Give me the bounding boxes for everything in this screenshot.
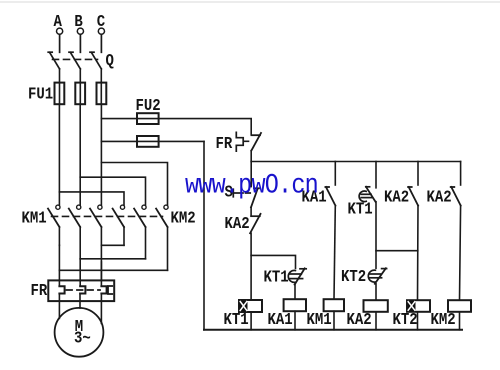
svg-text:Q: Q bbox=[106, 51, 114, 71]
svg-text:KA1: KA1 bbox=[268, 310, 293, 330]
svg-text:FU1: FU1 bbox=[28, 84, 53, 104]
pushbutton S operator bbox=[233, 189, 250, 197]
wire KA1 coil to rail bbox=[294, 311, 296, 330]
fuse FU1 phase C bbox=[97, 83, 107, 105]
coil KT2 bbox=[407, 300, 430, 312]
pushbutton S blade bbox=[251, 188, 259, 207]
wire pole1 down to FR bbox=[58, 245, 60, 286]
switch Q pole B bbox=[69, 35, 80, 69]
thermal contact FR blade bbox=[251, 133, 261, 151]
wire KM2 coil to rail bbox=[459, 312, 461, 330]
svg-text:KM2: KM2 bbox=[431, 310, 456, 330]
wire phase B vertical bbox=[79, 104, 81, 205]
svg-text:www.pwO.cn: www.pwO.cn bbox=[185, 170, 318, 201]
fuse FU2 lower bbox=[137, 136, 159, 147]
coil KA1 bbox=[284, 299, 306, 311]
wire return pole4 to pole3 bbox=[101, 244, 124, 246]
wire KA2#1 to KT2 coil bbox=[417, 206, 420, 301]
wire pole3 down to FR bbox=[100, 262, 102, 286]
wire KT2 coil to rail bbox=[417, 312, 419, 330]
faint scan border top bbox=[0, 1, 500, 3]
wire control left rail bbox=[203, 141, 205, 329]
svg-text:KM2: KM2 bbox=[171, 208, 196, 228]
wire KT1 coil to rail bbox=[250, 312, 252, 330]
svg-text:KT2: KT2 bbox=[341, 267, 366, 287]
FR heater element 1 bbox=[59, 286, 64, 293]
coil KM1 bbox=[324, 299, 344, 311]
dashed linkage KM1-KM2 bbox=[52, 215, 163, 217]
switch Q pole A bbox=[48, 35, 59, 69]
thermal relay FR box bbox=[48, 280, 114, 301]
wire rail to S button bbox=[250, 162, 252, 187]
svg-text:KA2: KA2 bbox=[427, 187, 452, 207]
wire C switch to fuse bbox=[100, 69, 102, 104]
branch KA1: wire from rail bbox=[334, 162, 336, 186]
terminal circle A bbox=[57, 28, 63, 34]
svg-text:KT1: KT1 bbox=[348, 199, 373, 219]
contactor KM2 pole 4 bbox=[113, 205, 125, 245]
wire phase A vertical bbox=[58, 104, 60, 205]
contact KT2 delayed open bbox=[368, 268, 386, 284]
contact KT1 delayed close (cup) bbox=[288, 268, 306, 284]
contact KA2 #2 bbox=[451, 187, 461, 206]
wire pole2 down to FR bbox=[79, 259, 81, 286]
branch KA2#2: wire from rail bbox=[460, 162, 462, 186]
FR heater element 3 bbox=[101, 286, 106, 293]
contact KA2 #1 bbox=[408, 187, 418, 206]
wire branch1 to KT1 coil bbox=[250, 233, 252, 300]
wire control feed lower bbox=[101, 140, 204, 142]
switch Q pole C bbox=[90, 35, 101, 69]
control top rail bbox=[251, 161, 460, 163]
svg-text:KA2: KA2 bbox=[225, 214, 250, 234]
wire return pole6 to pole1 bbox=[59, 269, 167, 271]
thermal contact FR operator bbox=[236, 132, 243, 151]
wire KA1 contact to KM1 coil bbox=[334, 206, 335, 300]
FR heater element 2 bbox=[80, 286, 85, 293]
wire control feed upper bbox=[101, 119, 251, 135]
control bottom rail bbox=[204, 329, 462, 331]
wire KT1 contact to junction2 bbox=[375, 202, 377, 269]
terminal circle B bbox=[77, 28, 83, 34]
svg-text:KT2: KT2 bbox=[393, 310, 418, 330]
svg-text:KM1: KM1 bbox=[307, 310, 332, 330]
contactor KM1 pole 1 bbox=[48, 205, 60, 245]
FR linkage dashes bbox=[67, 289, 101, 291]
wire KA2 coil to rail bbox=[375, 312, 377, 330]
terminal circle C bbox=[98, 28, 104, 34]
junction2 wire bbox=[376, 250, 418, 252]
wire FR to motor C bbox=[100, 294, 102, 324]
wire B switch to fuse bbox=[79, 69, 81, 104]
contactor KM2 pole 6 bbox=[156, 205, 168, 270]
thermal contact FR dashes bbox=[245, 140, 252, 142]
wire KT1 contact to KA1 coil bbox=[294, 285, 296, 300]
wire KA2#2 to KM2 coil bbox=[460, 206, 461, 301]
branch KT1: wire from rail bbox=[375, 162, 377, 188]
svg-text:FR: FR bbox=[216, 134, 233, 154]
wire junction to KT1 contact bbox=[251, 255, 295, 268]
wire crossover A to KM2 pole4 bbox=[59, 192, 124, 205]
fuse FU2 upper bbox=[137, 113, 159, 124]
wire return pole5 to pole2 bbox=[80, 258, 145, 260]
contactor KM1 pole 3 bbox=[90, 205, 102, 280]
branch KA2#1: wire from rail bbox=[417, 162, 419, 186]
coil KT1 bbox=[239, 300, 262, 312]
fuse FU1 phase B bbox=[75, 83, 85, 105]
wire FR to motor A bbox=[58, 294, 60, 319]
wire crossover C to KM2 pole6 bbox=[101, 163, 167, 206]
svg-text:FR: FR bbox=[31, 281, 48, 301]
svg-text:KT1: KT1 bbox=[264, 267, 289, 287]
contact KA2 branch1 bbox=[250, 207, 260, 233]
svg-text:KA2: KA2 bbox=[347, 310, 372, 330]
wire FR to motor B bbox=[79, 294, 81, 309]
motor M circle bbox=[55, 308, 104, 357]
contact KT1 delayed (upper) bbox=[359, 187, 375, 202]
svg-text:3~: 3~ bbox=[74, 328, 91, 348]
wire phase C vertical bbox=[100, 104, 102, 205]
wire FR contact to rail bbox=[250, 151, 252, 162]
wire KT2 contact to KA2 coil bbox=[375, 284, 377, 300]
wire A switch to fuse bbox=[59, 69, 61, 104]
contactor KM1 pole 2 bbox=[69, 205, 81, 259]
FR right bracket bbox=[108, 286, 112, 294]
svg-text:KA2: KA2 bbox=[384, 187, 409, 207]
svg-text:KM1: KM1 bbox=[22, 208, 47, 228]
fuse FU1 phase A bbox=[55, 83, 65, 105]
coil KM2 bbox=[448, 300, 471, 312]
wire crossover B to KM2 pole5 bbox=[80, 177, 145, 205]
switch Q dashed linkage bbox=[53, 58, 98, 60]
contactor KM2 pole 5 bbox=[134, 205, 146, 259]
wire KM1 coil to rail bbox=[333, 311, 335, 330]
svg-text:KT1: KT1 bbox=[224, 310, 249, 330]
coil KA2 bbox=[364, 300, 388, 312]
contact KA1 bbox=[325, 187, 335, 206]
